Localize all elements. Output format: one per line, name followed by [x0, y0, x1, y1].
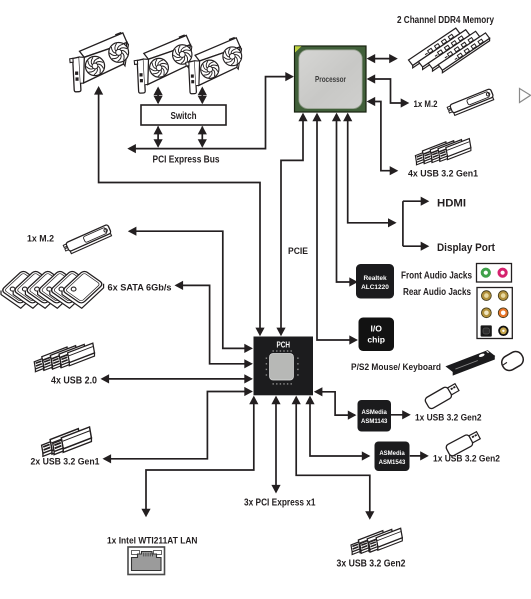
svg-text:ALC1220: ALC1220 [361, 284, 389, 291]
svg-text:chip: chip [367, 335, 385, 345]
svg-text:Switch: Switch [171, 111, 197, 122]
svg-text:1x M.2: 1x M.2 [27, 234, 54, 245]
svg-text:Rear Audio Jacks: Rear Audio Jacks [403, 287, 471, 298]
svg-text:4x USB 2.0: 4x USB 2.0 [51, 376, 97, 387]
svg-text:PCIE: PCIE [288, 246, 308, 257]
svg-text:Display Port: Display Port [437, 242, 495, 254]
svg-text:3x PCI Express x1: 3x PCI Express x1 [244, 498, 316, 509]
svg-text:Realtek: Realtek [363, 275, 387, 282]
svg-text:Front Audio Jacks: Front Audio Jacks [401, 271, 472, 282]
svg-text:2 Channel DDR4 Memory: 2 Channel DDR4 Memory [397, 15, 494, 26]
svg-text:PCH: PCH [276, 341, 290, 350]
svg-text:HDMI: HDMI [437, 198, 466, 210]
svg-text:ASMedia: ASMedia [362, 410, 388, 416]
svg-text:P/S2 Mouse/ Keyboard: P/S2 Mouse/ Keyboard [351, 362, 441, 373]
svg-text:ASMedia: ASMedia [379, 451, 405, 457]
svg-text:1x USB 3.2 Gen2: 1x USB 3.2 Gen2 [433, 454, 500, 465]
svg-text:Processor: Processor [315, 74, 347, 84]
svg-text:2x USB 3.2 Gen1: 2x USB 3.2 Gen1 [31, 457, 101, 468]
svg-text:ASM1143: ASM1143 [361, 419, 388, 425]
svg-text:1x USB 3.2 Gen2: 1x USB 3.2 Gen2 [415, 413, 482, 424]
svg-text:6x SATA 6Gb/s: 6x SATA 6Gb/s [108, 283, 172, 294]
svg-text:I/O: I/O [370, 324, 382, 334]
svg-text:ASM1543: ASM1543 [379, 460, 406, 466]
svg-text:3x USB 3.2 Gen2: 3x USB 3.2 Gen2 [337, 559, 406, 570]
svg-text:1x M.2: 1x M.2 [414, 99, 438, 110]
svg-text:4x USB 3.2 Gen1: 4x USB 3.2 Gen1 [408, 169, 479, 180]
svg-text:PCI Express Bus: PCI Express Bus [153, 155, 220, 166]
svg-text:1x Intel WTI211AT LAN: 1x Intel WTI211AT LAN [107, 536, 198, 547]
